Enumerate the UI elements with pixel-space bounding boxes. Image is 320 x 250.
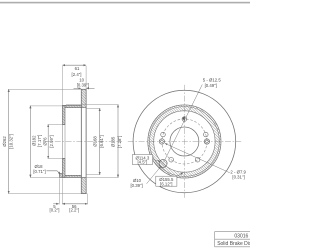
svg-text:[4.5"]: [4.5"] xyxy=(137,160,147,165)
dim dia262 xyxy=(2,89,88,193)
adjuster hole dia10 xyxy=(159,159,167,167)
friction band top hatch xyxy=(81,89,86,107)
dim dia76 bore xyxy=(43,125,63,159)
svg-text:[0.2"]: [0.2"] xyxy=(50,208,60,213)
svg-text:Ø182: Ø182 xyxy=(31,135,36,146)
dim dia168 xyxy=(86,108,104,174)
svg-text:Solid Brake Disc: Solid Brake Disc xyxy=(217,241,250,247)
circle dia177 xyxy=(150,107,220,177)
label dia155.5 boxed xyxy=(156,173,183,187)
horizontal centerline xyxy=(128,141,241,143)
lug hole upper-right xyxy=(204,132,209,137)
label 2-dia7.9 xyxy=(165,143,247,179)
svg-text:Ø185: Ø185 xyxy=(111,136,116,147)
flange bore gap edges xyxy=(62,125,65,159)
hat top wall xyxy=(62,105,81,107)
dim 5 bottom xyxy=(50,178,60,212)
bolt circle dia114.3 dashed xyxy=(162,119,207,164)
lug hole upper-left xyxy=(161,132,166,137)
friction band outline xyxy=(81,89,86,193)
svg-text:5 - Ø12.5: 5 - Ø12.5 xyxy=(203,78,222,83)
svg-text:[6.61"]: [6.61"] xyxy=(99,135,104,147)
dim dia18 leader xyxy=(33,164,60,174)
svg-text:[0.31"]: [0.31"] xyxy=(232,175,244,180)
svg-text:[0.71"]: [0.71"] xyxy=(33,169,45,174)
svg-text:03016: 03016 xyxy=(234,233,248,239)
dim 56 bottom xyxy=(62,178,87,212)
dim 10 thickness xyxy=(74,77,95,88)
mounting flange upper segment xyxy=(62,105,65,124)
lug hole lower-left xyxy=(169,157,174,162)
svg-text:[10.32"]: [10.32"] xyxy=(9,134,14,149)
svg-text:Ø168: Ø168 xyxy=(92,136,97,147)
svg-text:[0.39"]: [0.39"] xyxy=(130,183,142,188)
vertical centerline xyxy=(183,85,185,198)
center bore dia76 xyxy=(170,127,199,156)
hat bottom wall xyxy=(62,175,81,177)
svg-text:[0.39"]: [0.39"] xyxy=(77,83,89,88)
svg-text:[2.99"]: [2.99"] xyxy=(49,135,54,147)
lug hole lower-right xyxy=(195,157,200,162)
svg-text:[7.28"]: [7.28"] xyxy=(117,136,122,148)
svg-text:[2.2"]: [2.2"] xyxy=(69,208,79,213)
circle dia155.5 xyxy=(154,111,215,172)
circle dia186 flange edge xyxy=(148,105,221,178)
svg-text:Ø262: Ø262 xyxy=(2,136,7,147)
dim dia185 xyxy=(30,105,122,178)
lug hole top xyxy=(182,117,187,122)
svg-text:[0.49"]: [0.49"] xyxy=(205,83,217,88)
label dia10 xyxy=(130,167,160,189)
dim dia182 xyxy=(30,106,63,178)
label dia114.3 boxed xyxy=(132,155,160,165)
drum rim lip bottom-left xyxy=(59,174,62,178)
svg-text:[6.12"]: [6.12"] xyxy=(160,181,172,186)
screw hole left dia7.9 xyxy=(159,139,164,144)
screw hole right dia7.9 xyxy=(204,139,209,144)
mounting flange lower segment xyxy=(62,159,65,178)
svg-text:Ø76: Ø76 xyxy=(43,137,48,146)
svg-text:61: 61 xyxy=(75,66,80,71)
dim 61 top xyxy=(62,65,86,105)
outer circle dia262 xyxy=(133,90,236,193)
svg-text:2 - Ø7.9: 2 - Ø7.9 xyxy=(230,169,246,174)
friction band bottom hatch xyxy=(81,178,86,194)
drum surface hatched ring xyxy=(148,105,221,178)
label 5-dia12.5 xyxy=(164,78,222,163)
svg-text:[7.17"]: [7.17"] xyxy=(37,135,42,147)
section axis centerline xyxy=(44,141,122,143)
